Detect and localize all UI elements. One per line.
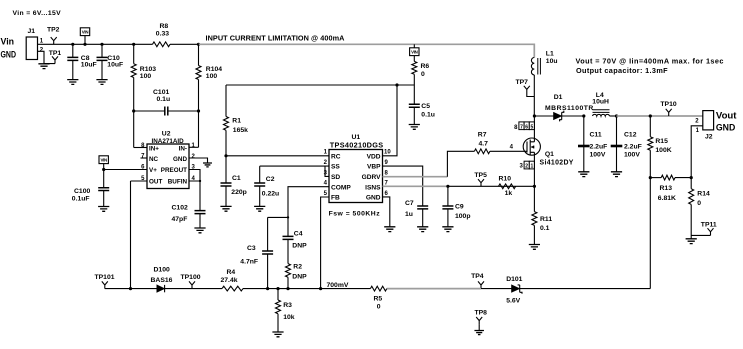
wire VDD top rail [226, 84, 414, 86]
svg-text:IN+: IN+ [149, 145, 159, 152]
svg-text:0: 0 [421, 71, 425, 78]
node L4/C12 junction [615, 114, 618, 117]
wire SS net to U1 [260, 165, 329, 167]
wire U1 ISNS pin7 (gray) [383, 185, 448, 187]
svg-text:ISNS: ISNS [365, 184, 381, 191]
svg-text:0.1uF: 0.1uF [72, 195, 90, 202]
svg-text:VDD: VDD [367, 153, 381, 160]
wire U2 pin8 IN+ [134, 147, 147, 149]
capacitor C11 [583, 116, 585, 172]
ground TP8 [474, 331, 484, 335]
capacitor C102 [195, 211, 206, 214]
capacitor C3 [267, 217, 269, 251]
svg-text:BUFIN: BUFIN [168, 179, 188, 186]
node R8/R104 junction [197, 43, 200, 46]
wire VIN label stub to V+ [103, 164, 105, 170]
svg-text:0.33: 0.33 [156, 30, 169, 37]
svg-text:7: 7 [520, 124, 523, 130]
wire U1 GDRV pin8 (gray) [383, 176, 448, 178]
svg-text:10uH: 10uH [592, 98, 609, 105]
net label VIN (R6) [413, 44, 415, 48]
svg-text:100K: 100K [655, 147, 671, 154]
svg-text:0.1u: 0.1u [421, 112, 435, 119]
capacitor C9 [447, 186, 449, 206]
wire Q1 drain [533, 116, 535, 142]
wire FB net down to divider rail [321, 197, 329, 289]
resistor R6 [413, 56, 415, 62]
ground U2 pin2 [203, 163, 212, 167]
svg-text:700mV: 700mV [327, 282, 349, 289]
svg-text:INA271AID: INA271AID [152, 138, 185, 145]
resistor R7 [474, 149, 489, 154]
svg-text:TP101: TP101 [95, 274, 115, 281]
svg-text:GDRV: GDRV [362, 174, 382, 181]
net label VIN (U2 supply) [99, 156, 108, 164]
svg-text:R13: R13 [660, 185, 673, 192]
node RC junction [224, 154, 227, 157]
svg-text:4.7: 4.7 [479, 140, 489, 147]
op-amp U2 INA271AID body [147, 144, 189, 189]
node junction dots on Vin rail [71, 43, 74, 46]
svg-text:V+: V+ [149, 167, 157, 174]
node R13/R14 junction [690, 176, 693, 179]
svg-text:TP100: TP100 [181, 274, 201, 281]
svg-text:R3: R3 [283, 302, 292, 309]
wire U2 pin5 OUT to feedback rail [131, 181, 148, 289]
svg-text:1: 1 [531, 164, 534, 170]
svg-text:2.2uF: 2.2uF [590, 144, 608, 151]
svg-text:C102: C102 [172, 205, 188, 212]
connector J1 [26, 37, 37, 60]
svg-text:Vout = 70V @ Iin=400mA max. fo: Vout = 70V @ Iin=400mA max. for 1sec [576, 57, 724, 66]
svg-text:R7: R7 [478, 132, 487, 139]
svg-text:BAS16: BAS16 [151, 277, 173, 284]
svg-text:10uF: 10uF [107, 62, 123, 69]
ground C100 [98, 207, 109, 212]
svg-text:MBRS1100TR: MBRS1100TR [545, 105, 594, 112]
svg-text:C5: C5 [421, 103, 430, 110]
node VDD-R6 junction [395, 83, 398, 86]
svg-text:C101: C101 [153, 89, 169, 96]
wire feedback divider rail [105, 288, 157, 290]
wire Q1 source [533, 152, 535, 186]
diode D101 zener 5.6V [512, 285, 520, 292]
capacitor C12 [616, 116, 618, 172]
svg-text:VBP: VBP [367, 164, 381, 171]
resistor R14 [690, 178, 692, 189]
svg-text:0.1u: 0.1u [157, 96, 171, 103]
svg-text:OUT: OUT [149, 179, 162, 186]
svg-text:0.22u: 0.22u [262, 190, 279, 197]
svg-text:165k: 165k [233, 127, 248, 134]
node R15 junction [649, 114, 652, 117]
svg-text:R2: R2 [293, 264, 302, 271]
svg-text:2.2uF: 2.2uF [624, 144, 642, 151]
svg-text:Vin = 6V...15V: Vin = 6V...15V [13, 10, 62, 17]
svg-text:TP5: TP5 [474, 172, 487, 179]
svg-text:Fsw = 500KHz: Fsw = 500KHz [329, 211, 381, 218]
resistor R2 (DNP) [286, 264, 291, 278]
wire R5 to TP4 (gray) [387, 288, 481, 290]
svg-text:6: 6 [525, 124, 528, 130]
svg-text:Output capacitor: 1.3mF: Output capacitor: 1.3mF [576, 66, 668, 75]
capacitor C100 [103, 170, 105, 188]
svg-text:TP4: TP4 [471, 273, 484, 280]
svg-text:47pF: 47pF [172, 216, 188, 223]
ground C9 [442, 227, 453, 232]
resistor R8 [153, 42, 171, 47]
wire SD tie to SS [325, 166, 329, 176]
wire RC net to U1 [226, 155, 329, 157]
capacitor C7 [417, 206, 428, 209]
ground R3 [272, 332, 283, 337]
wire U1 VDD pin10 [383, 85, 398, 156]
net label VIN (top left) [80, 28, 89, 36]
inductor L1 [531, 58, 534, 75]
wire feedback sense net [520, 178, 650, 289]
diode D100 BAS16 [157, 285, 165, 292]
svg-text:NC: NC [149, 156, 159, 163]
svg-text:5.6V: 5.6V [506, 297, 520, 304]
svg-text:GND: GND [1, 49, 17, 60]
resistor R13 [650, 177, 661, 179]
svg-text:C1: C1 [232, 175, 241, 182]
svg-text:Vout: Vout [716, 110, 737, 121]
svg-text:TP7: TP7 [516, 79, 529, 86]
svg-text:L1: L1 [546, 51, 554, 58]
svg-text:C2: C2 [266, 176, 275, 183]
svg-text:DNP: DNP [292, 243, 307, 250]
capacitor C101 [134, 110, 165, 112]
resistor R10 [499, 184, 516, 189]
resistor R11 [533, 186, 535, 211]
svg-text:FB: FB [331, 195, 340, 202]
capacitor C8 [72, 44, 74, 57]
wire U2 pin3 PREOUT jog [189, 170, 200, 182]
svg-text:100: 100 [206, 73, 218, 80]
wire U2 pin4 BUFIN [189, 181, 200, 211]
wire J2 pin1 to divider [691, 126, 703, 178]
svg-text:10k: 10k [283, 314, 295, 321]
node R104/C101 junction [197, 109, 200, 112]
svg-text:TP10: TP10 [660, 101, 676, 108]
svg-text:0.1: 0.1 [540, 225, 550, 232]
node R103/C101 junction [132, 109, 135, 112]
svg-text:U2: U2 [162, 131, 171, 138]
wire current-limited rail (gray) to L1 [199, 44, 535, 57]
resistor R1 [225, 85, 227, 117]
resistor R103 [133, 44, 135, 63]
svg-text:SD: SD [331, 174, 340, 181]
wire Vout rail (gray) [617, 115, 703, 117]
svg-text:C3: C3 [247, 245, 256, 252]
svg-text:R15: R15 [655, 138, 668, 145]
wire R8 right lead to junction [170, 43, 199, 45]
svg-text:C7: C7 [405, 200, 414, 207]
ground C7 [417, 227, 428, 232]
wire VIN label stub [84, 36, 86, 45]
svg-text:5: 5 [531, 124, 534, 130]
svg-text:VIN: VIN [100, 158, 107, 163]
svg-text:0: 0 [697, 200, 701, 207]
svg-text:TP11: TP11 [701, 221, 717, 228]
svg-text:C11: C11 [590, 132, 602, 139]
svg-text:R10: R10 [499, 176, 512, 183]
svg-text:D101: D101 [506, 276, 522, 283]
node divider junction dots [266, 287, 269, 290]
inductor L4 [593, 110, 610, 113]
svg-text:100p: 100p [455, 213, 471, 220]
transistor Q1 Si4102DY [523, 138, 540, 155]
svg-text:1k: 1k [505, 190, 513, 197]
svg-text:PREOUT: PREOUT [161, 167, 187, 174]
svg-text:2: 2 [525, 164, 528, 170]
svg-text:C9: C9 [455, 203, 464, 210]
svg-text:GND: GND [716, 122, 736, 133]
resistor R104 [198, 44, 200, 65]
svg-text:10: 10 [384, 150, 391, 156]
svg-text:IN-: IN- [179, 145, 187, 152]
node switch node junction [533, 114, 536, 117]
svg-text:0: 0 [377, 303, 381, 310]
svg-text:TPS40210DGS: TPS40210DGS [330, 140, 384, 149]
svg-text:TP8: TP8 [475, 309, 488, 316]
svg-text:C12: C12 [624, 132, 637, 139]
svg-text:C100: C100 [74, 188, 90, 195]
wire COMP net [268, 187, 329, 218]
svg-text:4.7nF: 4.7nF [240, 259, 258, 266]
svg-text:10u: 10u [546, 58, 558, 65]
svg-text:10uF: 10uF [81, 62, 97, 69]
svg-text:Si4102DY: Si4102DY [540, 159, 574, 166]
svg-text:R8: R8 [160, 23, 169, 30]
svg-text:100V: 100V [590, 152, 606, 159]
wire U1 VBP pin9 to C7 [383, 166, 423, 206]
svg-text:Vin: Vin [1, 35, 15, 46]
svg-text:D100: D100 [154, 267, 170, 274]
ground J1 [38, 64, 49, 69]
svg-text:J2: J2 [705, 134, 713, 141]
svg-text:220p: 220p [231, 189, 247, 196]
node Q1 source junction [533, 185, 536, 188]
svg-text:27.4k: 27.4k [221, 277, 238, 284]
svg-text:R104: R104 [206, 66, 222, 73]
svg-text:1u: 1u [405, 211, 413, 218]
capacitor C2 [259, 166, 261, 183]
svg-text:TP2: TP2 [47, 26, 60, 33]
controller U1 TPS40210DGS body [329, 150, 383, 203]
svg-text:R4: R4 [227, 269, 236, 276]
svg-text:R1: R1 [232, 118, 241, 125]
svg-text:R11: R11 [540, 216, 552, 223]
svg-text:VIN: VIN [411, 50, 418, 55]
resistor R3 [277, 289, 279, 300]
svg-text:COMP: COMP [331, 184, 351, 191]
wire Vin rail (black segment J1 to R8) [41, 43, 153, 45]
svg-text:R14: R14 [697, 191, 710, 198]
wire J1 pin2 to ground [38, 51, 56, 63]
node U2 OUT junction [129, 287, 132, 290]
wire U2 pin6 V+ [104, 169, 147, 171]
ground C2 [254, 206, 265, 211]
ground C11 [578, 172, 589, 177]
wire ISNS black segment to Q1 source [448, 185, 535, 187]
svg-text:D1: D1 [554, 94, 563, 101]
resistor R5 [370, 286, 386, 291]
svg-text:J1: J1 [28, 28, 36, 35]
svg-text:GND: GND [173, 156, 187, 163]
capacitor C4 (DNP) [287, 217, 289, 236]
capacitor C5 [413, 85, 415, 104]
ground C8 [67, 80, 78, 85]
wire GDRV to gate resistor [447, 151, 474, 176]
resistor R4 [222, 286, 243, 291]
node ISNS/C9 junction [446, 185, 449, 188]
ground R11 [529, 245, 540, 250]
wire U2 pin7 NC stub [141, 157, 148, 159]
wire U2 pin2 GND [189, 158, 208, 163]
svg-text:R5: R5 [374, 295, 383, 302]
resistor R15 [649, 116, 651, 137]
svg-text:SS: SS [331, 164, 340, 171]
svg-text:6.81K: 6.81K [658, 195, 676, 202]
ground R14 [686, 239, 697, 244]
ground C12 [611, 172, 622, 177]
svg-text:100V: 100V [624, 152, 640, 159]
ground C102 [194, 228, 205, 233]
svg-text:C4: C4 [294, 231, 303, 238]
svg-text:R103: R103 [140, 66, 156, 73]
svg-text:Q1: Q1 [545, 151, 554, 158]
svg-text:INPUT CURRENT LIMITATION @ 400: INPUT CURRENT LIMITATION @ 400mA [206, 34, 346, 43]
svg-text:TP1: TP1 [49, 50, 62, 57]
node R15/R13 junction [649, 176, 652, 179]
svg-text:VIN: VIN [82, 30, 89, 35]
diode D1 MBRS1100TR [534, 115, 553, 117]
capacitor C10 [101, 44, 103, 57]
ground C1 [220, 206, 231, 211]
svg-text:DNP: DNP [292, 274, 307, 281]
svg-text:GND: GND [366, 195, 381, 202]
capacitor C1 [225, 156, 227, 183]
svg-text:RC: RC [331, 153, 341, 160]
wire J1 pin1 to rail [38, 43, 42, 45]
ground C10 [96, 80, 107, 85]
ground C5 [409, 125, 420, 130]
wire U1 GND pin6 [383, 197, 390, 227]
svg-text:R6: R6 [421, 63, 430, 70]
ground U1 GND [384, 227, 395, 232]
connector J2 [703, 111, 714, 130]
svg-text:100: 100 [140, 73, 152, 80]
node D1/C11 junction [582, 114, 585, 117]
wire U2 pin1 IN- stub [189, 146, 199, 148]
